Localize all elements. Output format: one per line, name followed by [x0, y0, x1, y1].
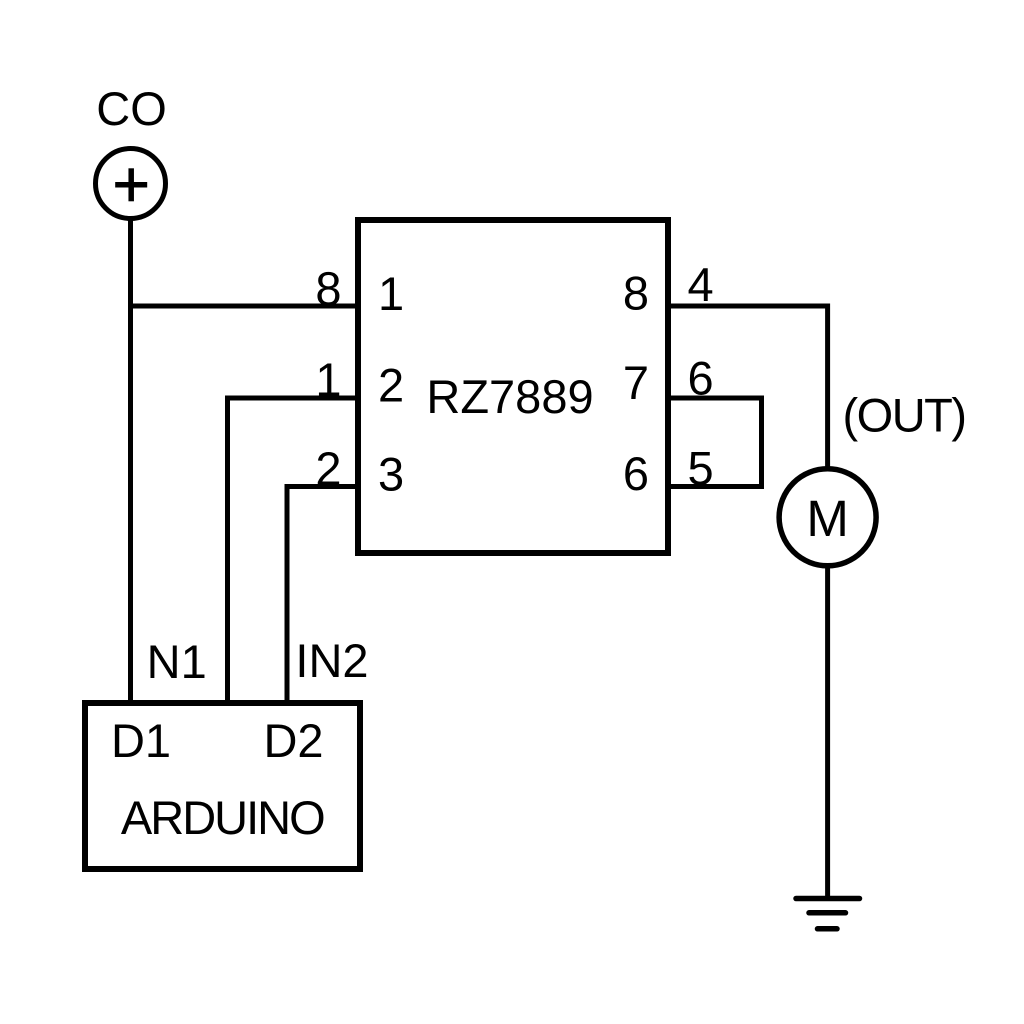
svg-text:(OUT): (OUT)	[842, 389, 965, 442]
svg-text:6: 6	[688, 352, 714, 405]
svg-text:D1: D1	[111, 714, 171, 767]
svg-text:3: 3	[378, 448, 404, 501]
svg-text:IN2: IN2	[295, 634, 368, 687]
svg-text:1: 1	[378, 267, 404, 320]
svg-text:2: 2	[378, 359, 404, 412]
svg-text:M: M	[806, 490, 848, 547]
svg-text:4: 4	[688, 258, 714, 311]
svg-text:6: 6	[623, 447, 649, 500]
svg-text:8: 8	[315, 262, 341, 315]
svg-text:N1: N1	[147, 635, 207, 688]
svg-text:2: 2	[315, 442, 341, 495]
svg-text:RZ7889: RZ7889	[426, 370, 593, 423]
svg-text:7: 7	[623, 356, 649, 409]
svg-text:ARDUINO: ARDUINO	[121, 791, 324, 844]
svg-text:5: 5	[688, 442, 714, 495]
svg-text:D2: D2	[263, 714, 323, 767]
svg-text:8: 8	[623, 267, 649, 320]
svg-text:CO: CO	[96, 82, 167, 135]
svg-text:1: 1	[315, 353, 341, 406]
